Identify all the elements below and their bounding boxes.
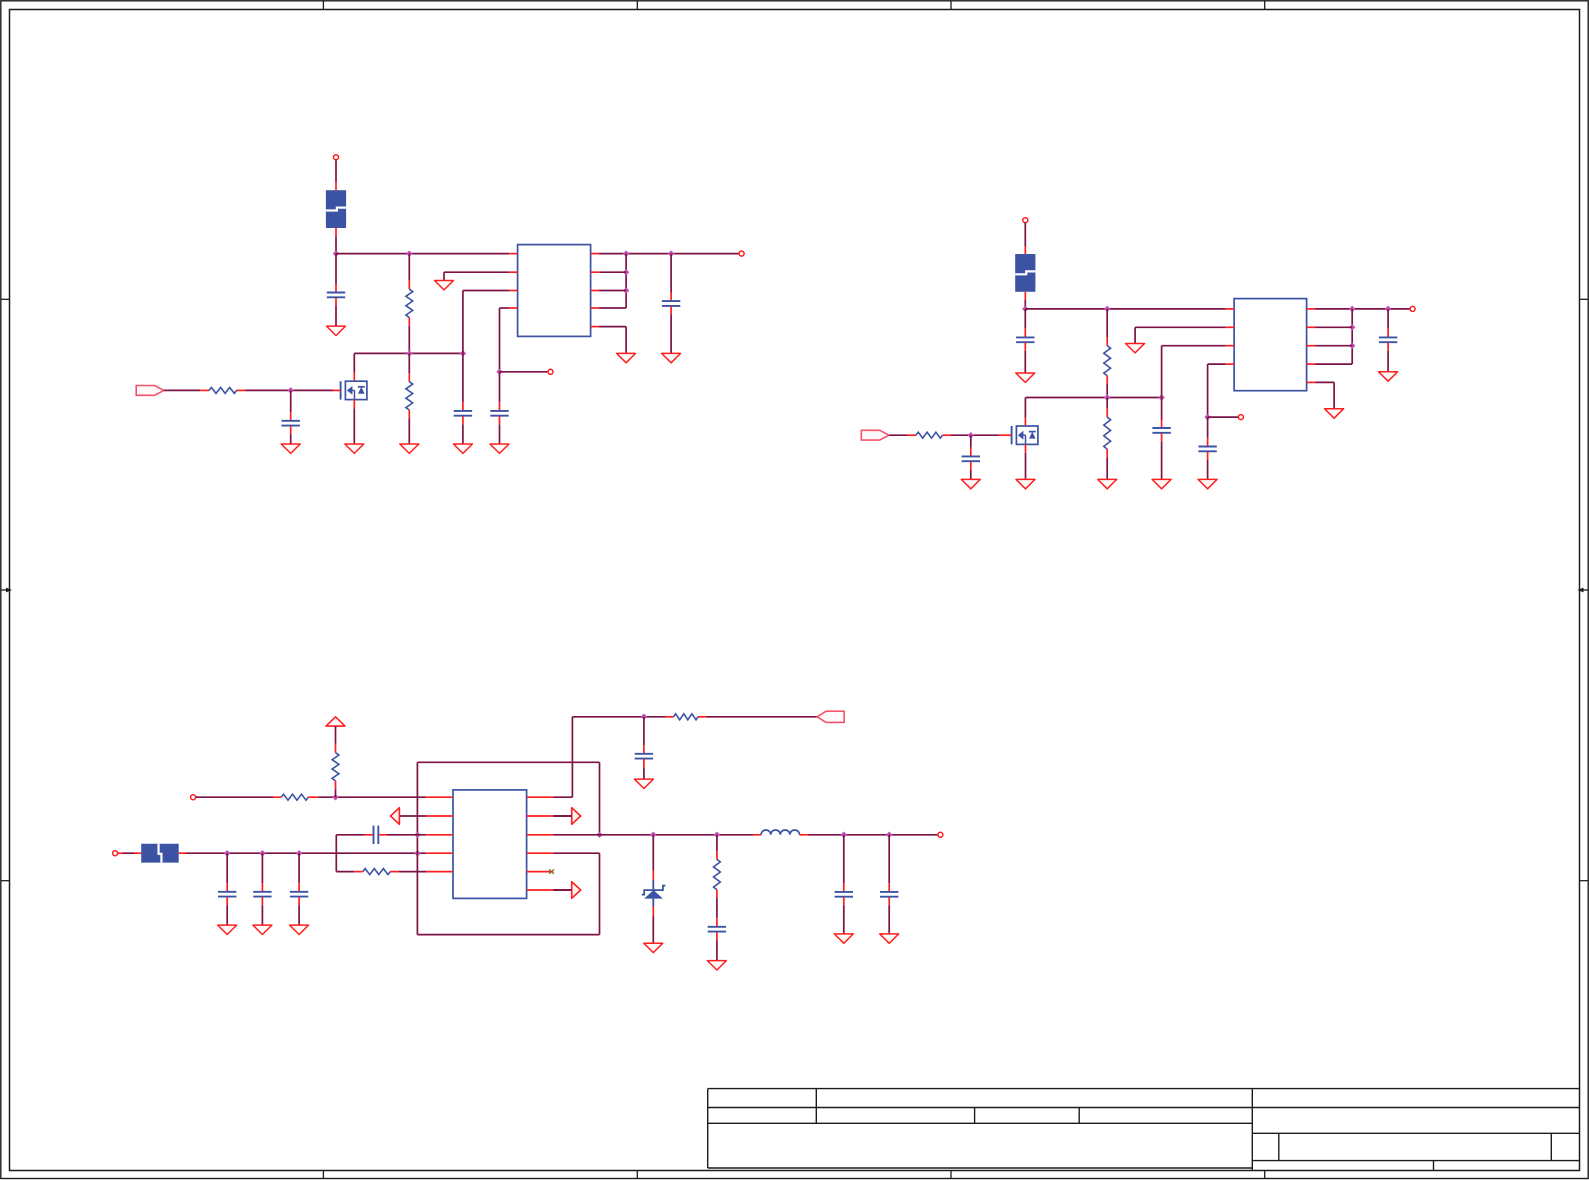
wire	[408, 353, 410, 443]
wire	[1207, 417, 1209, 438]
capacitor C6	[1016, 309, 1034, 373]
junction	[623, 250, 630, 257]
wire	[1025, 397, 1161, 399]
pin stubs U1 left	[509, 253, 517, 255]
junction	[886, 832, 893, 839]
ground	[644, 943, 663, 952]
wire pin stub	[353, 400, 355, 409]
ground	[327, 326, 346, 335]
wire	[1162, 346, 1226, 398]
ground	[490, 444, 509, 453]
wire	[652, 835, 654, 871]
resistor R2	[406, 373, 413, 418]
capacitor C4	[490, 402, 508, 443]
capacitor C10	[1379, 309, 1397, 371]
junction	[406, 250, 413, 257]
terminal VIN3 (B)	[113, 851, 118, 856]
wire	[353, 408, 355, 443]
junction	[1204, 414, 1211, 421]
wire	[164, 389, 200, 391]
wire	[553, 834, 599, 836]
resistor R11	[714, 851, 721, 898]
junction	[414, 850, 421, 857]
ground	[435, 281, 454, 290]
wire	[599, 271, 626, 273]
port EN1 (TL)	[136, 386, 164, 396]
capacitor C7	[962, 435, 980, 479]
junction	[714, 832, 721, 839]
diode D1 zener	[642, 871, 666, 917]
junction	[596, 832, 603, 839]
wire	[336, 835, 426, 872]
pin stubs U2 left	[1226, 308, 1235, 310]
wire	[353, 353, 355, 373]
terminal FB2 (TR)	[1238, 415, 1243, 420]
resistor R1	[406, 281, 413, 326]
junction	[332, 794, 339, 801]
junction	[333, 250, 340, 257]
wire	[444, 272, 509, 280]
ground	[1016, 373, 1035, 382]
capacitor C13 input	[290, 853, 308, 924]
ground	[880, 934, 899, 943]
sheet-exit CLKOUT (right arrow)	[553, 808, 580, 825]
wire	[1024, 223, 1026, 246]
capacitor C15	[635, 717, 653, 779]
wire	[599, 327, 626, 353]
junction	[641, 714, 648, 721]
capacitor C3	[454, 402, 472, 443]
resistor R5	[1104, 409, 1111, 458]
wire	[599, 290, 626, 292]
junction	[259, 850, 266, 857]
ground	[1198, 479, 1217, 488]
wire	[318, 796, 426, 798]
capacitor C16	[708, 918, 726, 960]
junction	[406, 350, 413, 357]
fuse F2	[1015, 254, 1035, 292]
ground	[1126, 344, 1145, 353]
pin stubs U3 right	[527, 796, 554, 798]
junction	[296, 850, 303, 857]
junction	[287, 387, 294, 394]
pin stubs U1 right	[591, 253, 600, 255]
wire pin stub	[1024, 418, 1026, 427]
junction	[496, 369, 503, 376]
wire pin stub	[335, 182, 337, 190]
wire pin stub	[135, 852, 142, 854]
wire	[123, 852, 135, 854]
wire pin stub	[179, 852, 186, 854]
wire	[408, 254, 410, 354]
wire	[335, 160, 337, 182]
wire pin stub	[1024, 246, 1026, 254]
capacitor C18	[880, 835, 898, 934]
wire	[706, 716, 817, 718]
junction	[1022, 306, 1029, 313]
resistor R7	[273, 794, 318, 800]
no-connect cross	[549, 869, 554, 874]
junction	[224, 850, 231, 857]
ground	[961, 479, 980, 488]
junction	[968, 432, 975, 439]
capacitor C12 input	[253, 853, 271, 924]
junction	[841, 832, 848, 839]
wire	[1315, 363, 1352, 365]
resistor R6	[908, 432, 951, 438]
wire	[500, 371, 548, 373]
wire pin stub	[335, 228, 337, 237]
ground	[617, 353, 636, 362]
wire	[1106, 398, 1108, 479]
inductor L1	[753, 830, 808, 835]
wire	[1025, 453, 1027, 479]
title block	[708, 1089, 1580, 1171]
ground	[707, 961, 726, 970]
capacitor C1	[327, 254, 345, 326]
ground	[834, 934, 853, 943]
wire	[625, 254, 627, 308]
junction	[1349, 342, 1356, 349]
wire	[599, 307, 626, 309]
ground	[1379, 372, 1398, 381]
wire	[1351, 309, 1353, 364]
fuse F1	[326, 190, 346, 228]
wire	[245, 389, 333, 391]
ground	[1152, 479, 1171, 488]
ground	[290, 925, 309, 934]
junction	[1104, 394, 1111, 401]
wire	[1135, 327, 1226, 343]
wire	[1024, 398, 1026, 418]
wire pin stub	[1024, 292, 1026, 300]
power VCC arrow	[326, 717, 345, 726]
wire	[1025, 308, 1225, 310]
terminal VIN1 (TL)	[334, 155, 339, 160]
wire	[1315, 308, 1410, 310]
wire	[1208, 364, 1226, 417]
converter U3	[453, 790, 527, 899]
capacitor C2	[282, 390, 300, 443]
wire	[600, 834, 754, 836]
wire	[1315, 382, 1334, 408]
wire	[652, 917, 654, 943]
wire	[951, 434, 999, 436]
junction	[623, 287, 630, 294]
junction	[1385, 306, 1392, 313]
wire	[196, 796, 274, 798]
fuse F3	[141, 844, 179, 863]
resistor R3	[200, 387, 245, 393]
junction	[460, 350, 467, 357]
wire	[809, 834, 938, 836]
wire	[553, 889, 571, 891]
wire	[553, 717, 665, 797]
wire pin stub	[1025, 444, 1027, 453]
border center arrow left	[1, 588, 12, 593]
wire	[500, 308, 510, 372]
wire	[1161, 398, 1163, 420]
ground	[281, 444, 300, 453]
wire	[553, 815, 571, 817]
terminal VIN2 (TR)	[1023, 218, 1028, 223]
pin stubs U2 right	[1307, 308, 1316, 310]
wire	[335, 789, 337, 797]
resistor R8	[332, 744, 339, 790]
capacitor C17	[835, 835, 853, 934]
capacitor C5	[662, 254, 680, 353]
resistor R4	[1104, 337, 1111, 384]
ground	[662, 353, 681, 362]
terminal VOUT2 (TR)	[1410, 306, 1415, 311]
ground	[1016, 479, 1035, 488]
wire	[716, 898, 718, 918]
ground	[218, 925, 237, 934]
ground	[1325, 409, 1344, 418]
ground	[1098, 479, 1117, 488]
capacitor C9	[1198, 438, 1216, 479]
regulator U2	[1234, 299, 1307, 391]
wire	[336, 834, 365, 836]
transistor Q2	[1012, 426, 1038, 444]
wire	[599, 253, 739, 255]
wire	[1315, 345, 1352, 347]
capacitor C14 comp	[365, 826, 387, 844]
wire pin stub	[118, 852, 123, 854]
wire	[335, 726, 337, 743]
wire	[889, 434, 908, 436]
ground	[253, 925, 272, 934]
terminal VOUT3 (B)	[938, 832, 943, 837]
wire	[463, 291, 509, 354]
wire	[499, 372, 501, 403]
junction	[1158, 394, 1165, 401]
wire	[1208, 416, 1239, 418]
border center arrow right	[1578, 588, 1589, 593]
wire pin stub	[353, 373, 355, 381]
junction	[623, 269, 630, 276]
terminal VOUT1 (TL)	[739, 251, 744, 256]
wire	[1315, 326, 1352, 328]
regulator U1	[518, 245, 591, 337]
junction	[1349, 306, 1356, 313]
ground	[634, 779, 653, 788]
capacitor C11 input	[218, 853, 236, 924]
terminal FB1 (TL)	[548, 369, 553, 374]
resistor R10	[666, 714, 707, 720]
junction	[414, 832, 421, 839]
port PGOOD (B)	[817, 711, 844, 722]
transistor Q1	[341, 381, 367, 399]
resistor R9 comp	[354, 869, 399, 875]
junction	[650, 832, 657, 839]
sheet-exit SW (right arrow)	[553, 882, 580, 899]
wire	[1024, 300, 1026, 309]
wire	[462, 353, 464, 402]
pin stubs U3 left	[426, 796, 453, 798]
wire	[716, 835, 718, 851]
terminal RUN (B)	[191, 795, 196, 800]
capacitor C8	[1152, 419, 1170, 479]
junction	[1104, 306, 1111, 313]
wire	[186, 852, 427, 854]
wire	[354, 352, 463, 354]
wire net loop	[417, 762, 599, 934]
wire	[335, 237, 337, 254]
wire	[336, 253, 509, 255]
junction	[1349, 324, 1356, 331]
sheet-entry SYNC (left arrow)	[390, 808, 426, 825]
port EN2 (TR)	[861, 430, 889, 440]
ground	[400, 444, 419, 453]
ground	[453, 444, 472, 453]
ground	[345, 444, 364, 453]
wire	[1106, 309, 1108, 398]
junction	[668, 250, 675, 257]
